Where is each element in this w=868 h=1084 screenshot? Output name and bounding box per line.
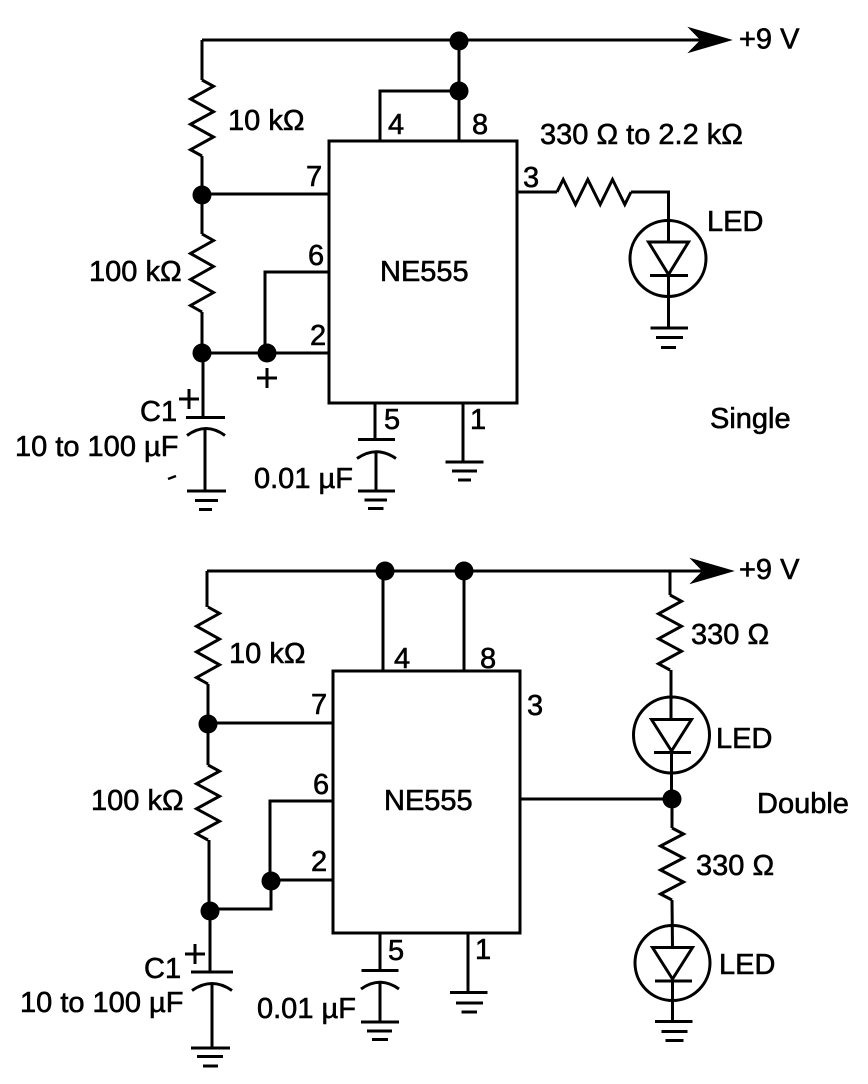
- capacitor C1 top plate: [186, 416, 225, 419]
- LED D2 circle: [634, 697, 710, 773]
- svg-text:7: 7: [311, 689, 327, 721]
- svg-text:100 kΩ: 100 kΩ: [91, 785, 184, 817]
- resistor 100 kOhm (top circuit): [191, 234, 214, 312]
- svg-text:8: 8: [472, 109, 488, 141]
- LED D3 cathode bar: [655, 980, 692, 983]
- svg-text:3: 3: [527, 690, 543, 722]
- wire +9V rail bottom: [207, 570, 702, 573]
- LED D1 circle: [630, 221, 706, 297]
- resistor 10 kOhm (bottom circuit): [197, 607, 220, 684]
- LED D2 cathode bar: [654, 751, 691, 754]
- node pin7 junction: [193, 186, 212, 205]
- power arrow +9 V (bottom): [691, 559, 733, 583]
- node pin7 junction (bottom): [199, 715, 218, 734]
- svg-text:Single: Single: [710, 403, 791, 435]
- capacitor 0.01uF top plate: [358, 438, 395, 441]
- wire pin 3 output (bottom): [520, 798, 665, 801]
- capacitor C1 top plate (bottom): [191, 971, 233, 974]
- svg-text:4: 4: [388, 109, 404, 141]
- svg-text:LED: LED: [716, 723, 772, 755]
- svg-text:+9 V: +9 V: [739, 24, 800, 56]
- wire to pin 7: [202, 193, 329, 196]
- wire resistor to node (bottom): [207, 684, 210, 724]
- wire pin 8: [458, 40, 461, 141]
- node rail junction A: [376, 562, 395, 581]
- node pin2 junction (bottom): [262, 872, 281, 891]
- LED D3 triangle: [653, 948, 693, 980]
- wire C1 to ground (bottom): [211, 984, 214, 1048]
- svg-text:LED: LED: [719, 949, 775, 981]
- svg-text:6: 6: [308, 240, 324, 272]
- wire jog to pin2 node: [210, 881, 271, 909]
- wire pin 3 output: [517, 191, 557, 194]
- wire LED D3 to ground: [671, 979, 674, 1022]
- wire right branch drop: [669, 571, 672, 595]
- node junction on rail (top): [450, 32, 469, 51]
- op-amp U2 NE555 box (bottom circuit): [333, 671, 520, 933]
- wire pin 4: [380, 91, 459, 141]
- ground below 0.01uF: [358, 491, 395, 509]
- wire node to 100k (bottom): [207, 724, 210, 765]
- wire to pin 2: [202, 352, 329, 355]
- wire 100k to node: [201, 312, 204, 353]
- wire resistor to node: [201, 156, 204, 195]
- svg-text:C1: C1: [140, 396, 177, 428]
- resistor 330 Ohm upper (bottom circuit): [659, 595, 682, 670]
- wire to pin 2 (bottom): [271, 879, 333, 882]
- power arrow +9 V (top): [689, 28, 731, 52]
- wire pin 1 (bottom): [467, 933, 470, 993]
- svg-text:NE555: NE555: [384, 785, 473, 817]
- plus mark at pin2 node: [257, 368, 277, 388]
- wire node to C1: [202, 353, 205, 417]
- wire pin 6: [265, 272, 329, 353]
- ground below LED D3: [655, 1022, 693, 1041]
- ground below 0.01uF (bottom): [361, 1022, 399, 1040]
- plus mark of capacitor C1 (bottom): [185, 944, 205, 964]
- wire C1 to ground: [204, 429, 207, 491]
- capacitor 0.01uF curved plate (bottom): [361, 982, 399, 989]
- ground below pin 1: [446, 462, 484, 480]
- svg-text:+9 V: +9 V: [739, 554, 800, 586]
- small stray mark: [168, 476, 176, 479]
- node C1 junction (bottom): [201, 902, 220, 921]
- capacitor 0.01uF curved plate: [357, 452, 396, 459]
- svg-text:NE555: NE555: [380, 256, 469, 288]
- plus mark of capacitor C1: [179, 389, 199, 409]
- wire pin 4 (bottom): [382, 571, 385, 671]
- svg-text:6: 6: [313, 769, 329, 801]
- svg-text:7: 7: [306, 161, 322, 193]
- node rail junction B: [455, 562, 474, 581]
- svg-text:10 kΩ: 10 kΩ: [228, 105, 305, 137]
- svg-text:10 kΩ: 10 kΩ: [229, 638, 306, 670]
- wire left rail drop (bottom): [206, 571, 209, 607]
- svg-text:2: 2: [310, 320, 326, 352]
- LED D1 cathode bar: [650, 274, 688, 277]
- node LED junction: [663, 790, 682, 809]
- wire pin 8 (bottom): [463, 571, 466, 671]
- wire pin 6 (bottom): [270, 801, 333, 876]
- wire pin 5 (bottom): [379, 933, 382, 970]
- svg-text:LED: LED: [707, 206, 763, 238]
- capacitor 0.01uF top plate (bottom): [362, 969, 399, 972]
- wire LED to ground: [667, 275, 670, 329]
- svg-text:3: 3: [523, 162, 539, 194]
- wire 0.01uF to ground (bottom): [379, 982, 382, 1022]
- node C1 junction: [193, 344, 212, 363]
- wire pin 1: [462, 403, 465, 462]
- wire to pin 7 (bottom): [208, 722, 333, 725]
- svg-text:0.01 µF: 0.01 µF: [257, 993, 356, 1025]
- ground below LED D1: [651, 328, 689, 348]
- wire pin 5: [374, 403, 377, 439]
- op-amp U1 NE555 box (top circuit): [329, 141, 517, 403]
- svg-text:10 to 100 µF: 10 to 100 µF: [20, 987, 183, 1019]
- wire resistor to LED lower: [671, 900, 675, 948]
- svg-text:0.01 µF: 0.01 µF: [254, 463, 353, 495]
- svg-text:Double: Double: [757, 788, 849, 820]
- LED D2 triangle: [652, 720, 692, 752]
- wire LED D2 to node: [670, 751, 673, 799]
- LED D1 triangle: [649, 242, 689, 275]
- node pin4/8 junction: [450, 82, 469, 101]
- resistor 100 kOhm (bottom circuit): [197, 765, 220, 840]
- svg-text:C1: C1: [144, 953, 181, 985]
- resistor 10 kOhm (top circuit): [191, 80, 214, 156]
- wire resistor to LED: [631, 192, 669, 242]
- LED D3 circle: [635, 926, 710, 1001]
- wire resistor to LED upper: [670, 670, 673, 720]
- resistor 330 Ohm to 2.2 kOhm: [557, 180, 631, 205]
- svg-text:330 Ω: 330 Ω: [696, 850, 774, 882]
- svg-text:330 Ω to 2.2 kΩ: 330 Ω to 2.2 kΩ: [540, 119, 743, 151]
- node pin2 junction: [258, 344, 277, 363]
- capacitor C1 curved plate: [187, 429, 225, 436]
- svg-text:1: 1: [470, 404, 486, 436]
- svg-text:10 to 100 µF: 10 to 100 µF: [15, 431, 178, 463]
- resistor 330 Ohm lower (bottom circuit): [661, 828, 684, 900]
- svg-text:100 kΩ: 100 kΩ: [89, 256, 182, 288]
- wire node to 100k: [201, 195, 204, 234]
- svg-text:8: 8: [480, 643, 496, 675]
- ground below pin 1 (bottom): [450, 993, 488, 1013]
- svg-text:1: 1: [475, 934, 491, 966]
- wire node to 330 lower: [671, 799, 674, 828]
- wire +9V rail top: [202, 39, 700, 42]
- capacitor C1 curved plate (bottom): [192, 984, 232, 991]
- wire node to C1 (bottom): [209, 911, 212, 972]
- wire 100k to node (bottom): [208, 840, 211, 911]
- svg-text:4: 4: [394, 643, 410, 675]
- svg-text:5: 5: [388, 935, 404, 967]
- svg-text:5: 5: [384, 404, 400, 436]
- svg-text:2: 2: [311, 846, 327, 878]
- ground below C1 (bottom): [191, 1048, 230, 1066]
- wire left rail drop: [201, 40, 204, 80]
- ground below C1: [187, 491, 226, 510]
- wire 0.01uF to ground: [375, 452, 378, 491]
- svg-text:330 Ω: 330 Ω: [691, 619, 769, 651]
